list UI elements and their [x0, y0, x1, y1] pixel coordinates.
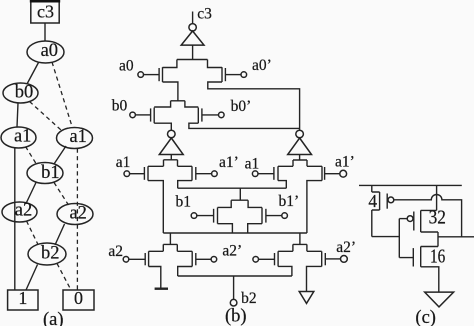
transistor M16 gate bar — [412, 248, 414, 266]
transistor Q12 gate lead — [196, 258, 211, 260]
svg-text:a2: a2 — [15, 201, 32, 221]
wire b1 to a2R dashed — [54, 183, 69, 206]
transistor Q1 gate lead — [144, 74, 160, 76]
wire a1L to terminal 1 solid — [14, 148, 16, 290]
transistor Q2 channel — [221, 67, 223, 82]
transistor Q9 b1: drain — [218, 200, 232, 207]
transistor Q14 a2 channel right — [321, 251, 323, 266]
wire W3 b2 — [178, 276, 292, 299]
transistor M16 drain lead — [421, 246, 438, 248]
svg-text:a2’: a2’ — [222, 242, 242, 259]
terminal a1 circle right — [252, 171, 258, 177]
node b0 — [3, 82, 38, 103]
transistor Q2 gate lead — [225, 74, 241, 76]
inverter U3 out stub — [299, 155, 301, 161]
transistor Q7 a1 channel — [277, 166, 279, 180]
node a2 right — [57, 204, 93, 225]
transistor M32 channel — [420, 210, 422, 232]
transistor Q14 source to ground triangle — [307, 266, 322, 291]
transistor Q3 b0 left: drain — [154, 101, 170, 107]
node bar a2 left pair — [149, 244, 193, 251]
transistor Q9 channel — [217, 208, 219, 224]
node a2 left — [2, 201, 37, 222]
terminal a0' circle — [241, 72, 247, 78]
transistor Q14 gate lead — [325, 258, 340, 260]
transistor M32 source — [421, 232, 438, 247]
transistor M16 channel — [420, 247, 422, 267]
transistor Q2 a0' right: drain — [208, 60, 223, 68]
transistor Q2 source wire to right node — [208, 82, 300, 130]
svg-text:16: 16 — [430, 246, 445, 268]
transistor Q8 source down to lower wire — [307, 181, 322, 233]
svg-text:b1’: b1’ — [279, 193, 300, 210]
transistor Q8 gate bar — [324, 167, 326, 180]
wire a2L to b2 dashed — [27, 221, 39, 245]
node a1 left — [1, 127, 36, 148]
transistor Q10 source — [248, 224, 262, 233]
terminal a2' circle right — [341, 256, 348, 263]
svg-text:c3: c3 — [197, 6, 212, 23]
node a1 right — [57, 127, 93, 149]
terminal 0 box — [63, 288, 94, 310]
terminal b0' circle — [219, 112, 225, 118]
transistor Q7 source to b1 wire — [278, 181, 286, 189]
svg-text:a1: a1 — [245, 155, 260, 172]
inverter U2 triangle — [159, 138, 183, 155]
node bar b1 pair — [231, 199, 248, 201]
wire b0 to a1R dashed — [30, 102, 62, 131]
transistor M16 source to ground — [421, 267, 439, 292]
transistor Q3 source to inverter U2 — [154, 123, 171, 130]
inverter U3 bubble right — [296, 130, 304, 138]
wire b0 to a1L solid — [17, 103, 18, 127]
wire a0 to b0 solid — [27, 63, 39, 85]
svg-text:b1: b1 — [41, 163, 60, 183]
transistor M32 drain from rail — [421, 185, 437, 210]
transistor Q11 gate lead — [129, 258, 145, 260]
transistor Q12 a2' channel — [191, 251, 193, 266]
transistor Q4 gate lead — [202, 114, 219, 116]
svg-text:a0: a0 — [119, 58, 134, 75]
svg-text:b0: b0 — [112, 98, 128, 115]
svg-text:b1: b1 — [176, 193, 192, 210]
transistor Q4 gate bar — [201, 108, 203, 121]
inverter U2 bubble — [168, 130, 176, 138]
svg-text:a1’: a1’ — [219, 154, 239, 171]
transistor Q4 b0' right: drain — [185, 101, 198, 107]
terminal b1' circle — [282, 213, 288, 219]
transistor Q13 gate lead — [259, 258, 275, 260]
transistor Q13 source to b2 wire — [278, 266, 292, 276]
transistor Q3 channel — [153, 108, 155, 124]
transistor Q3 gate lead — [135, 114, 150, 116]
svg-text:a0: a0 — [41, 41, 58, 61]
ground triangle right — [299, 292, 314, 304]
svg-text:(c): (c) — [415, 308, 436, 326]
wire W2 lower — [163, 233, 307, 244]
svg-text:1: 1 — [18, 288, 27, 308]
svg-text:0: 0 — [74, 288, 83, 308]
transistor Q9 gate bar — [213, 209, 215, 223]
svg-text:4: 4 — [368, 191, 377, 211]
transistor M4 drain lead — [372, 210, 380, 237]
transistor Q12 gate bar — [195, 253, 197, 265]
svg-text:a1: a1 — [69, 127, 86, 147]
transistor Q10 channel — [261, 208, 263, 224]
node b1 — [27, 163, 63, 184]
transistor Q11 gate bar — [144, 253, 146, 265]
transistor Q13 a2' channel — [277, 251, 279, 266]
wire a2R to b2 solid — [55, 224, 65, 245]
transistor Q6 gate bar — [195, 167, 197, 180]
net c3 lead — [192, 12, 194, 24]
power rail — [359, 184, 462, 186]
transistor Q1 a0 left: drain — [163, 60, 177, 68]
wire a1R to terminal 0 dashed — [76, 149, 78, 291]
svg-text:a1: a1 — [116, 154, 131, 171]
svg-text:a1’: a1’ — [335, 153, 355, 170]
inverter U3 triangle — [288, 138, 312, 155]
transistor Q10 b1': drain — [248, 200, 262, 207]
transistor Q7 gate bar — [273, 167, 275, 180]
transistor Q2 gate bar — [224, 68, 226, 81]
transistor M4 gate bar — [386, 194, 388, 209]
transistor Q6 a1' channel — [191, 166, 193, 180]
node bar a0 pair — [177, 59, 208, 61]
transistor Q13 gate bar — [274, 253, 276, 265]
wire W1 to b1 pair — [178, 188, 287, 200]
transistor Q4 channel — [197, 108, 199, 124]
transistor Q11 source to ground — [149, 267, 161, 289]
transistor M32 gate bubble — [407, 216, 413, 222]
svg-text:(a): (a) — [43, 310, 64, 326]
svg-text:a2: a2 — [69, 204, 86, 224]
wire b2 to terminal 1 solid — [26, 265, 38, 291]
terminal a1' circle right — [340, 170, 347, 177]
terminal b1 circle — [191, 213, 197, 219]
svg-text:a0’: a0’ — [252, 57, 272, 74]
wire b1 to a2L solid — [27, 183, 37, 203]
transistor Q11 a2 channel — [148, 251, 150, 266]
transistor Q4 source wire joining right node — [189, 123, 300, 128]
transistor M32 gate lead — [399, 218, 407, 220]
svg-text:a2’: a2’ — [336, 239, 356, 256]
inverter U1 triangle — [181, 31, 204, 45]
transistor Q14 gate bar — [324, 253, 326, 265]
transistor Q5 gate bar — [143, 167, 145, 180]
node bar b0 pair — [171, 100, 185, 102]
wire U1 out to a0 node — [192, 45, 194, 59]
svg-text:b0’: b0’ — [231, 98, 252, 115]
terminal a2' circle mid right — [253, 257, 259, 263]
transistor Q5 a1 channel — [147, 166, 149, 180]
transistor Q10 gate bar — [265, 209, 267, 223]
transistor Q9 source — [218, 224, 233, 233]
terminal b2 circle — [230, 299, 237, 306]
transistor Q5 source down to lower wire — [148, 181, 163, 233]
transistor Q1 channel — [162, 67, 164, 82]
node bar a2 right pair — [278, 244, 322, 251]
terminal a2 circle — [123, 257, 129, 263]
transistor Q8 a1' channel — [321, 166, 323, 180]
svg-text:b2: b2 — [241, 290, 257, 307]
wire M4 drain to input node — [372, 236, 400, 238]
wire a1R to b1 solid — [54, 146, 66, 164]
node bar a1 left pair — [148, 160, 192, 167]
wire c3 to a0 — [44, 23, 46, 41]
wire b2 to terminal 0 dashed — [57, 264, 71, 291]
input node vertical — [399, 219, 413, 258]
transistor Q10 gate lead — [266, 215, 282, 217]
transistor Q7 gate lead — [258, 173, 274, 175]
svg-text:32: 32 — [429, 206, 446, 228]
transistor M32 gate bar — [413, 212, 415, 231]
inverter U1 bubble — [189, 24, 196, 31]
transistor Q12 source to b2 wire — [178, 267, 193, 277]
wire a1L to b1 dashed — [26, 147, 37, 164]
transistor Q9 gate lead — [197, 215, 214, 217]
ground triangle — [425, 292, 454, 307]
node b2 — [28, 243, 66, 265]
transistor M4 gate bubble — [388, 197, 394, 203]
terminal a0 circle — [138, 72, 144, 78]
terminal b0 circle — [130, 112, 136, 118]
node a0 — [27, 41, 64, 63]
transistor Q1 source to b0 node — [163, 82, 178, 101]
keeper gate wire with hop — [394, 195, 474, 237]
transistor Q3 gate bar — [150, 108, 152, 121]
node bar a1 right pair — [278, 160, 322, 166]
inverter U2 out stub — [170, 155, 172, 160]
ground bar left — [155, 288, 168, 290]
transistor Q6 source to b1 wire — [178, 181, 192, 189]
transistor M4: source stub — [372, 185, 380, 192]
transistor Q6 gate lead — [196, 173, 212, 175]
svg-text:a2: a2 — [108, 243, 123, 260]
wire a0 to a1R dashed — [52, 62, 73, 128]
svg-text:a1: a1 — [14, 127, 31, 147]
node c3 box — [30, 1, 60, 23]
svg-text:b0: b0 — [15, 82, 34, 102]
svg-text:c3: c3 — [37, 1, 54, 21]
terminal a1 circle — [124, 171, 130, 177]
svg-text:b2: b2 — [41, 243, 60, 263]
transistor Q8 gate lead — [325, 173, 340, 175]
terminal a2' circle — [211, 257, 217, 263]
transistor Q5 gate lead — [130, 173, 145, 175]
transistor M4 channel — [379, 192, 381, 210]
transistor Q1 gate bar — [158, 68, 160, 81]
terminal 1 box — [8, 288, 38, 310]
svg-text:(b): (b) — [225, 307, 247, 326]
terminal a1' circle — [212, 171, 218, 177]
